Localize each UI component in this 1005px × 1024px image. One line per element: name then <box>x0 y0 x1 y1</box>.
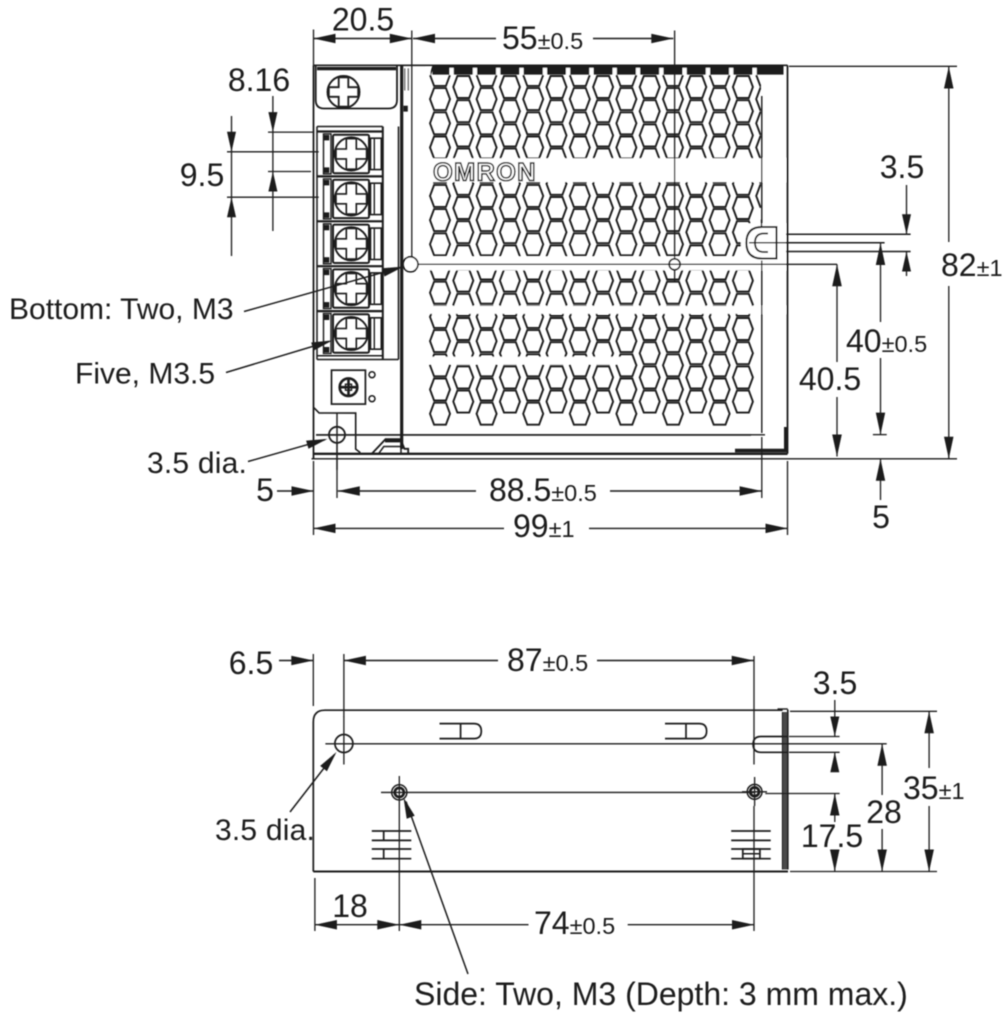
dimension 18 <box>315 924 399 926</box>
scan highlight bands (white gaps in vent) <box>429 158 786 182</box>
dimension 87±0.5 <box>344 660 498 662</box>
dimension 74±0.5 <box>399 924 528 926</box>
svg-text:3.5 dia.: 3.5 dia. <box>215 814 315 847</box>
extension line left bottom <box>314 878 316 931</box>
front panel divider edge <box>400 65 403 449</box>
svg-text:9.5: 9.5 <box>180 157 224 193</box>
output wire upper <box>786 233 911 235</box>
terminal 4 (M3.5 screw) <box>317 266 383 308</box>
dimension 28 <box>881 744 883 795</box>
chassis tab slot right <box>665 724 707 739</box>
svg-text:Side: Two, M3 (Depth: 3 mm max: Side: Two, M3 (Depth: 3 mm max.) <box>414 976 908 1012</box>
bottom-left chassis step <box>314 407 361 452</box>
dimension 88.5±0.5 <box>338 490 476 492</box>
din-rail foot bump <box>372 439 408 454</box>
extension lines 8.16 <box>268 131 314 133</box>
vent slots right (side) <box>731 830 771 832</box>
dimension 20.5 <box>314 38 412 40</box>
dimension 5 left <box>277 490 314 492</box>
dimension 82±1 <box>948 67 950 243</box>
svg-text:5: 5 <box>872 499 890 535</box>
mid reference line <box>325 743 886 745</box>
svg-text:Five, M3.5: Five, M3.5 <box>75 358 215 391</box>
power supply case outline (front view) <box>314 64 788 66</box>
svg-text:Bottom: Two, M3: Bottom: Two, M3 <box>9 293 234 326</box>
dimension 5 right <box>880 459 882 500</box>
bottom hole centerline right <box>674 31 676 259</box>
left mounting hole 3.5 dia (side) <box>335 735 353 753</box>
terminal 3 (M3.5 screw) <box>317 221 383 263</box>
node hole B <box>669 259 680 270</box>
bottom-right corner bracket <box>735 449 788 453</box>
OMRON logo <box>433 159 537 187</box>
extension lines 35 <box>790 710 937 712</box>
bottom hole line <box>418 263 837 265</box>
top mounting bracket <box>316 65 397 108</box>
vent right margin line <box>761 96 763 433</box>
dimension 17.5 <box>834 794 836 823</box>
dimension 35±1 <box>928 711 930 768</box>
hole connecting line <box>381 791 755 793</box>
svg-text:3.5: 3.5 <box>813 665 857 701</box>
indicator hole lower <box>369 396 375 402</box>
svg-text:28: 28 <box>866 794 902 830</box>
side view outline <box>313 710 782 722</box>
side view front panel strip <box>783 712 788 870</box>
dimension 8.16 <box>272 96 274 132</box>
bottom hole centerline left <box>411 31 413 257</box>
svg-text:8.16: 8.16 <box>228 62 290 98</box>
bottom flange top line <box>316 434 751 436</box>
svg-text:3.5 dia.: 3.5 dia. <box>147 447 247 480</box>
svg-text:3.5: 3.5 <box>880 149 924 185</box>
dimension 99±1 <box>314 527 505 529</box>
terminal 2 (M3.5 screw) <box>317 176 383 219</box>
svg-text:5: 5 <box>256 472 274 508</box>
svg-text:17.5: 17.5 <box>801 818 863 854</box>
extension line hole left <box>336 443 338 498</box>
indicator hole upper <box>369 372 375 378</box>
right slot (3.5 wide) <box>753 737 787 753</box>
dimension 55±0.5 <box>413 38 496 40</box>
side hole M3 left <box>392 785 407 800</box>
dimension 40.5 <box>836 264 838 362</box>
extension line 88.5 right <box>761 437 763 498</box>
svg-text:20.5: 20.5 <box>332 2 394 38</box>
terminal 1 (M3.5 screw) <box>317 132 383 174</box>
dimension 40±0.5 <box>880 243 882 322</box>
wire entry grommet <box>741 224 786 261</box>
svg-text:18: 18 <box>332 888 368 924</box>
honeycomb vent pattern <box>430 64 776 425</box>
vent top fold dark edge <box>433 65 784 74</box>
vent slots left (side) <box>372 830 412 832</box>
output wire middle <box>777 242 885 244</box>
extension line top right <box>789 65 957 67</box>
svg-text:40.5: 40.5 <box>799 361 861 397</box>
voltage adjust potentiometer <box>332 370 366 404</box>
extension lines 9.5 <box>227 151 319 153</box>
svg-text:6.5: 6.5 <box>229 645 273 681</box>
dimension 3.5 right <box>906 185 908 234</box>
terminal block housing <box>317 126 383 128</box>
extension lines 99 <box>313 461 315 535</box>
side hole M3 right <box>747 784 762 799</box>
svg-text:OMRON: OMRON <box>433 159 537 187</box>
extension line left top <box>313 30 315 66</box>
node hole A <box>403 257 418 272</box>
dimension 9.5 <box>231 116 233 256</box>
hole line extension right <box>765 793 839 795</box>
terminal 5 (M3.5 screw) <box>317 311 383 353</box>
output wire lower <box>786 251 911 253</box>
bottom-left mounting hole 3.5 dia <box>329 427 345 443</box>
chassis tab slot left <box>440 724 482 739</box>
hole centerline left (side) <box>398 817 400 931</box>
hole centerline right (side) <box>753 656 755 765</box>
bracket screw <box>328 76 360 108</box>
